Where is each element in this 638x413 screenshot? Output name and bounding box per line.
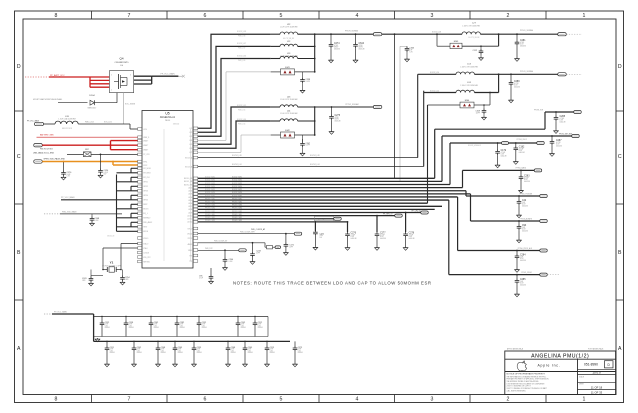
capacitor C343 <box>400 46 414 61</box>
svg-text:PMU_LX4: PMU_LX4 <box>238 123 245 125</box>
node PP1V8_VDDIO terminal <box>520 70 582 76</box>
wire vertical net A <box>394 33 396 178</box>
svg-text:LDO5: LDO5 <box>188 200 192 202</box>
wire L26 to U5 pin <box>78 122 137 129</box>
svg-text:1: 1 <box>583 13 586 19</box>
svg-text:6.3V: 6.3V <box>231 350 234 352</box>
svg-text:SOCV2_SW7: SOCV2_SW7 <box>205 195 215 197</box>
svg-text:4: 4 <box>356 13 359 19</box>
svg-text:0.1UF: 0.1UF <box>229 261 233 263</box>
svg-text:SOCV2_SW1: SOCV2_SW1 <box>232 177 242 179</box>
capacitor C241 <box>82 269 104 286</box>
border grid letters right <box>618 64 622 352</box>
svg-text:BUCK0_FB: BUCK0_FB <box>184 178 192 180</box>
svg-text:PP1V8_SDRAM: PP1V8_SDRAM <box>345 29 359 32</box>
svg-text:C511: C511 <box>110 347 114 349</box>
wire XTALO <box>121 244 138 270</box>
capacitor C238 <box>300 72 310 93</box>
svg-text:PP1V8_S2R: PP1V8_S2R <box>534 109 544 111</box>
svg-text:0402-M: 0402-M <box>380 238 386 240</box>
svg-text:LDO7: LDO7 <box>188 206 192 208</box>
capacitor C512 <box>253 317 264 337</box>
svg-text:D104: D104 <box>89 95 95 97</box>
wire risers U5 to buck inductor rows <box>198 31 271 152</box>
svg-text:TP1: TP1 <box>189 255 192 257</box>
svg-text:PP_VCC_MAIN: PP_VCC_MAIN <box>61 196 75 199</box>
wire L22 output <box>298 33 374 35</box>
svg-text:5: 5 <box>280 397 283 403</box>
svg-text:C472: C472 <box>320 233 325 235</box>
svg-text:PORT ANGELINA-B: PORT ANGELINA-B <box>588 348 604 351</box>
svg-text:6.3V: 6.3V <box>161 350 164 352</box>
svg-text:B: B <box>17 250 21 256</box>
wire SOCV2 long A <box>198 74 418 157</box>
svg-text:PP1V8_VSOC: PP1V8_VSOC <box>517 139 528 141</box>
wire bus U5 SOCV2 group <box>198 177 471 223</box>
wire PP_VCC_MAIN to pins <box>61 196 116 200</box>
svg-text:6.3V: 6.3V <box>241 325 244 327</box>
svg-text:PPGPU_SW2: PPGPU_SW2 <box>205 217 215 219</box>
svg-text:WDOG: WDOG <box>143 209 149 211</box>
svg-text:PPGPU_SW2: PPGPU_SW2 <box>232 217 242 219</box>
diode D104 <box>33 93 117 110</box>
node PP1V8_SDRAM terminal <box>345 29 382 35</box>
svg-text:D: D <box>618 64 622 70</box>
svg-text:22PF: 22PF <box>289 246 293 248</box>
svg-text:REFGND: REFGND <box>143 261 151 263</box>
svg-text:PPCPU_SW5: PPCPU_SW5 <box>205 211 215 213</box>
title block <box>505 348 616 395</box>
svg-text:TP2: TP2 <box>189 261 192 263</box>
svg-text:SOCV2_LX5: SOCV2_LX5 <box>237 105 246 107</box>
svg-text:PP3V0_VIDEO: PP3V0_VIDEO <box>521 272 533 274</box>
capacitor C247 <box>300 135 310 156</box>
wire staircase row C287 <box>442 134 579 182</box>
svg-text:6.3V: 6.3V <box>105 325 108 327</box>
svg-text:0603-M: 0603-M <box>178 352 184 354</box>
wire BATTERY_SNS red <box>37 133 138 137</box>
svg-text:NRST: NRST <box>143 204 147 206</box>
wire red battery thick <box>42 141 137 150</box>
svg-text:C148: C148 <box>95 218 100 220</box>
svg-text:FB6 ROUTING: FB6 ROUTING <box>40 148 53 150</box>
svg-text:LDO6: LDO6 <box>188 203 192 205</box>
svg-text:PPCPU_SW1: PPCPU_SW1 <box>205 198 215 200</box>
svg-text:SOCV2_SW4: SOCV2_SW4 <box>232 186 242 188</box>
svg-text:LX4: LX4 <box>189 140 192 142</box>
svg-text:47UF: 47UF <box>258 324 262 326</box>
svg-text:MOUNT NEAR WIFI/BT ANGELINA A1: MOUNT NEAR WIFI/BT ANGELINA A1 <box>33 98 62 101</box>
svg-text:LDO12: LDO12 <box>187 222 192 224</box>
svg-text:C171: C171 <box>289 244 294 246</box>
inductor L23 <box>271 96 298 107</box>
svg-text:PP_CPU: PP_CPU <box>143 154 150 156</box>
svg-text:PPGPU_SW3: PPGPU_SW3 <box>205 220 215 222</box>
svg-text:6.3V: 6.3V <box>178 350 181 352</box>
svg-text:16V: 16V <box>320 237 323 239</box>
svg-text:5: 5 <box>280 13 283 19</box>
svg-text:SOCV2_SW6: SOCV2_SW6 <box>205 192 215 194</box>
svg-text:2: 2 <box>507 13 510 19</box>
svg-text:SPK1: SPK1 <box>143 161 147 163</box>
capacitor C542 <box>132 341 143 366</box>
svg-text:PP_SOC_IO: PP_SOC_IO <box>316 219 326 221</box>
capacitor C548 <box>156 341 167 366</box>
wire bank row1 rail <box>94 316 268 337</box>
svg-text:6.3V: 6.3V <box>197 350 200 352</box>
capacitor C319 <box>475 104 486 120</box>
svg-text:1.1UH 1.5YR 110MOHM: 1.1UH 1.5YR 110MOHM <box>280 99 298 101</box>
svg-text:6.3V: 6.3V <box>110 350 113 352</box>
svg-text:C: C <box>618 154 622 160</box>
node terminal PPCPU right <box>412 211 429 214</box>
svg-text:6.3V: 6.3V <box>154 325 157 327</box>
svg-text:SPKR_VDD_PALM_SNS: SPKR_VDD_PALM_SNS <box>44 157 66 160</box>
svg-text:SOCV2_L24: SOCV2_L24 <box>310 164 320 166</box>
svg-text:GPIO4: GPIO4 <box>143 195 148 197</box>
svg-text:0603-M: 0603-M <box>197 352 203 354</box>
svg-text:1.1UH 1.5YR 110MOHM: 1.1UH 1.5YR 110MOHM <box>462 26 480 28</box>
svg-text:15PF: 15PF <box>82 280 86 282</box>
svg-text:0603-M: 0603-M <box>202 327 208 329</box>
inductor L13 far <box>418 63 479 74</box>
capacitor C563 <box>173 341 184 366</box>
svg-text:2 NOT TO MODIFIED OR COPY IT: 2 NOT TO MODIFIED OR COPY IT <box>507 386 531 388</box>
svg-text:47UF: 47UF <box>105 324 109 326</box>
svg-text:PP5V0_SDRAM: PP5V0_SDRAM <box>520 29 534 32</box>
svg-text:0402-M: 0402-M <box>520 285 526 287</box>
inductor L22 <box>271 24 298 40</box>
svg-text:SOCV2_SW3: SOCV2_SW3 <box>205 183 215 185</box>
svg-text:7: 7 <box>128 13 131 19</box>
svg-text:SPI_MOSI: SPI_MOSI <box>143 168 151 170</box>
svg-text:0603-M: 0603-M <box>359 49 365 51</box>
svg-text:SOCV2_SW1: SOCV2_SW1 <box>205 177 215 179</box>
capacitor C552 <box>100 317 111 337</box>
capacitor C569 <box>243 341 254 366</box>
svg-text:0603-M: 0603-M <box>154 327 160 329</box>
svg-text:C247: C247 <box>306 143 311 145</box>
svg-text:EM4: EM4 <box>465 100 470 102</box>
svg-text:11 OF 33: 11 OF 33 <box>591 391 603 395</box>
Apple logo <box>517 361 526 371</box>
svg-text:PP1V8_SDRAM: PP1V8_SDRAM <box>520 70 534 73</box>
wire staircase row C283 <box>463 166 542 187</box>
svg-text:GPIO5: GPIO5 <box>143 200 148 202</box>
svg-text:1.1UH 1.5YR 110MOHM: 1.1UH 1.5YR 110MOHM <box>280 113 298 115</box>
node PP_VCC_MAIN terminal left <box>27 119 44 125</box>
svg-text:ELLCTV_SM_MK: ELLCTV_SM_MK <box>283 38 294 40</box>
svg-text:10UF: 10UF <box>67 174 71 176</box>
svg-text:C548: C548 <box>161 347 165 349</box>
svg-text:LX7: LX7 <box>189 152 192 154</box>
svg-text:47UF: 47UF <box>241 324 245 326</box>
svg-text:PP_VCC_MAIN: PP_VCC_MAIN <box>27 119 40 122</box>
svg-text:10.0.0: 10.0.0 <box>592 371 601 375</box>
capacitor C558 <box>124 317 135 337</box>
svg-text:C563: C563 <box>178 347 182 349</box>
svg-text:EM1: EM1 <box>285 67 290 69</box>
svg-text:LDO8: LDO8 <box>188 209 192 211</box>
wire Q4 drain output PP_VCC_MAIN <box>134 72 185 84</box>
svg-text:PPCPU_SW4: PPCPU_SW4 <box>232 208 242 210</box>
node PP1V2 terminal <box>373 105 382 108</box>
svg-text:120PF: 120PF <box>476 112 481 114</box>
wire left pin comb jumpers <box>117 168 138 231</box>
svg-text:C238: C238 <box>306 79 311 81</box>
svg-text:8: 8 <box>55 397 58 403</box>
svg-text:47UF: 47UF <box>270 349 274 351</box>
capacitor C112 <box>473 45 484 60</box>
svg-text:2: 2 <box>507 397 510 403</box>
wire PP1V8 continue right <box>382 33 449 35</box>
svg-text:SPI_MISO: SPI_MISO <box>143 173 151 175</box>
svg-text:PP_VCC_MAIN: PP_VCC_MAIN <box>161 72 176 75</box>
svg-text:1.1UH 1.5YR 110MOHM: 1.1UH 1.5YR 110MOHM <box>280 27 298 29</box>
capacitor C573 <box>293 341 304 366</box>
svg-text:0603-M: 0603-M <box>248 352 254 354</box>
svg-text:PMU05: PMU05 <box>165 120 170 122</box>
svg-text:PP_VCC_MAIN: PP_VCC_MAIN <box>54 310 67 313</box>
capacitor C277 <box>375 215 387 251</box>
svg-text:C319: C319 <box>475 111 480 113</box>
svg-text:PMU_CLK32K_WIFI: PMU_CLK32K_WIFI <box>240 231 255 233</box>
node battery terminal red <box>34 144 43 147</box>
wire bank row2 rail <box>94 340 290 342</box>
wire CLK32K BT row with resistor <box>198 240 275 249</box>
svg-text:6.3V: 6.3V <box>137 350 140 352</box>
svg-text:120PF: 120PF <box>306 145 311 147</box>
svg-text:ANGELINA PMU(1/2): ANGELINA PMU(1/2) <box>531 354 589 360</box>
capacitor C170 <box>61 161 72 180</box>
wire XTALI <box>103 236 138 270</box>
svg-text:SOCV2_SW3: SOCV2_SW3 <box>232 183 242 185</box>
svg-text:C558: C558 <box>129 322 133 324</box>
svg-text:C513: C513 <box>270 347 274 349</box>
capacitor C472 <box>251 221 324 250</box>
capacitor C593 <box>192 341 203 366</box>
svg-text:SOCV2_SW2: SOCV2_SW2 <box>232 180 242 182</box>
svg-text:6.3V: 6.3V <box>202 325 205 327</box>
svg-text:47UF: 47UF <box>129 324 133 326</box>
capacitor C562 <box>149 317 160 337</box>
svg-text:SOCV2_B: SOCV2_B <box>185 166 192 168</box>
inductor L26 <box>44 116 79 130</box>
svg-text:47UF: 47UF <box>231 349 235 351</box>
svg-text:PP1V2_SDRAM: PP1V2_SDRAM <box>345 103 359 106</box>
svg-text:22PF: 22PF <box>256 252 260 254</box>
svg-text:1.1UH 1.5YR 110MOHM: 1.1UH 1.5YR 110MOHM <box>460 66 478 68</box>
svg-text:NOTES: ROUTE THIS TRACE BETWEE: NOTES: ROUTE THIS TRACE BETWEEN LDO AND … <box>233 281 432 286</box>
svg-text:SOCV2_LX7: SOCV2_LX7 <box>237 43 246 45</box>
svg-text:PPGPU_SW1: PPGPU_SW1 <box>205 214 215 216</box>
inductor L14 <box>271 110 298 121</box>
wire SOCV2 long B <box>198 91 424 167</box>
wire red feed to Q4 <box>49 77 109 87</box>
svg-text:C542: C542 <box>137 347 141 349</box>
node PP_BATT_VCC dashed entry <box>25 74 65 77</box>
svg-text:SOCV2_LX8: SOCV2_LX8 <box>237 31 246 33</box>
capacitor C281 <box>515 33 527 61</box>
wire L24 output join <box>474 73 499 92</box>
svg-text:PP_CPU_IO: PP_CPU_IO <box>412 211 422 213</box>
svg-text:LX24: LX24 <box>143 129 147 131</box>
svg-text:1UF: 1UF <box>410 50 413 52</box>
svg-text:7: 7 <box>128 397 131 403</box>
svg-text:OSC32_IN: OSC32_IN <box>107 236 114 238</box>
svg-text:SOCV2_SW2: SOCV2_SW2 <box>205 180 215 182</box>
svg-text:PMU_NTC: PMU_NTC <box>205 248 214 250</box>
svg-text:C112: C112 <box>473 50 477 52</box>
EMI filter EM5 loop <box>436 33 499 48</box>
svg-text:0603-M: 0603-M <box>334 49 340 51</box>
svg-text:47UF: 47UF <box>110 349 114 351</box>
svg-text:C243: C243 <box>256 250 261 252</box>
capacitor C243 <box>250 242 261 264</box>
svg-text:0603-M: 0603-M <box>129 327 135 329</box>
svg-text:ELLCTV_SM_MK: ELLCTV_SM_MK <box>469 37 480 39</box>
svg-text:SOCV2_SW5: SOCV2_SW5 <box>205 189 215 191</box>
svg-text:A: A <box>17 346 21 352</box>
svg-text:SOCV2_L28: SOCV2_L28 <box>310 155 320 157</box>
svg-text:C582: C582 <box>180 322 184 324</box>
U5 left pin boxes <box>138 128 142 263</box>
capacitor C592 <box>197 317 208 337</box>
title block legal text <box>507 373 549 393</box>
svg-text:PPCPU_SW3: PPCPU_SW3 <box>205 205 215 207</box>
title block labels <box>537 361 615 395</box>
svg-text:C592: C592 <box>202 322 206 324</box>
capacitor C179 <box>495 142 507 168</box>
svg-text:SPK2: SPK2 <box>143 165 147 167</box>
wire NTC row <box>198 248 239 250</box>
svg-text:PPCPU_SW5: PPCPU_SW5 <box>232 211 242 213</box>
svg-text:ANGELINA-A1: ANGELINA-A1 <box>160 116 176 119</box>
svg-text:U5: U5 <box>165 112 169 116</box>
svg-text:SOCV2_SW5: SOCV2_SW5 <box>232 189 242 191</box>
svg-text:LDO1: LDO1 <box>188 187 192 189</box>
svg-text:D: D <box>17 64 21 70</box>
svg-text:1 NO RESERVE THIS DOCUMENT OR: 1 NO RESERVE THIS DOCUMENT OR CONFIDENTE <box>507 383 545 385</box>
svg-text:0603-M: 0603-M <box>241 327 247 329</box>
svg-text:LX1: LX1 <box>189 128 192 130</box>
svg-text:1: 1 <box>583 397 586 403</box>
svg-text:C562: C562 <box>154 322 158 324</box>
svg-text:0603-M: 0603-M <box>231 352 237 354</box>
svg-text:3: 3 <box>431 13 434 19</box>
svg-text:0603-M: 0603-M <box>161 352 167 354</box>
capacitor C283 <box>519 170 531 194</box>
svg-text:NR3015T1R1N: NR3015T1R1N <box>62 128 72 130</box>
wire L27 output <box>480 33 557 35</box>
svg-text:NTCO: NTCO <box>188 228 193 230</box>
svg-text:47UF: 47UF <box>202 324 206 326</box>
svg-text:0402-M: 0402-M <box>409 238 415 240</box>
svg-text:PMU_CLK32K_AP: PMU_CLK32K_AP <box>251 228 266 231</box>
svg-text:22PF: 22PF <box>320 235 324 237</box>
svg-text:SOCV2_SW4: SOCV2_SW4 <box>205 186 215 188</box>
svg-text:47UF: 47UF <box>298 349 302 351</box>
svg-text:C343: C343 <box>410 48 415 50</box>
svg-text:6: 6 <box>204 13 207 19</box>
svg-text:LX3: LX3 <box>189 136 192 138</box>
svg-text:C573: C573 <box>298 347 302 349</box>
svg-text:VDD_RTC: VDD_RTC <box>143 257 151 259</box>
node PP5V0_SDRAM terminal <box>520 29 582 36</box>
svg-text:PPCPU_SW1: PPCPU_SW1 <box>232 198 242 200</box>
svg-text:120PF: 120PF <box>306 81 311 83</box>
node oval NTC terminal <box>239 249 247 252</box>
svg-text:6.3V: 6.3V <box>129 325 132 327</box>
wire L13 far output <box>474 73 557 75</box>
svg-text:0.1UF: 0.1UF <box>104 172 108 174</box>
svg-text:LDO11: LDO11 <box>187 219 192 221</box>
border grid letters left <box>17 64 21 352</box>
svg-text:LX6: LX6 <box>189 148 192 150</box>
svg-text:SOC_I5SNS: SOC_I5SNS <box>125 104 136 106</box>
svg-text:6.3V: 6.3V <box>410 51 413 53</box>
svg-text:CSD68822W15: CSD68822W15 <box>115 62 130 64</box>
svg-text:C254: C254 <box>125 277 130 279</box>
capacitor C275 <box>329 106 341 134</box>
wire Q4 source sense <box>124 93 136 124</box>
capacitor C42 <box>517 195 529 218</box>
svg-text:B: B <box>618 250 622 256</box>
svg-text:BUCK1_FB: BUCK1_FB <box>184 181 192 183</box>
transistor Q4 <box>109 57 133 93</box>
svg-text:GPIO1: GPIO1 <box>143 182 148 184</box>
op-amp U5 ANGELINA-A1 main IC body <box>142 111 193 269</box>
svg-text:Y1: Y1 <box>110 260 114 264</box>
svg-text:MODE: MODE <box>143 231 148 233</box>
svg-text:4.7UF: 4.7UF <box>199 277 203 279</box>
capacitor C287 <box>550 135 563 156</box>
svg-text:4: 4 <box>356 397 359 403</box>
svg-text:15PF: 15PF <box>125 279 129 281</box>
svg-text:VDDIO: VDDIO <box>143 238 149 240</box>
svg-text:6.3V: 6.3V <box>298 350 301 352</box>
capacitor C582 <box>175 317 186 337</box>
svg-text:C244: C244 <box>229 259 234 261</box>
svg-text:47UF: 47UF <box>197 349 201 351</box>
svg-text:LDO3: LDO3 <box>188 194 192 196</box>
svg-text:C95: C95 <box>199 275 202 277</box>
svg-text:6.3V: 6.3V <box>180 325 183 327</box>
svg-text:SPI_CLK: SPI_CLK <box>143 177 150 179</box>
wire staircase row C42 <box>466 191 547 198</box>
wire CLK32K WIFI row <box>198 231 294 233</box>
svg-text:IRQ_L: IRQ_L <box>143 213 148 215</box>
svg-text:343S0542: 343S0542 <box>173 123 180 125</box>
svg-text:0402-M: 0402-M <box>520 260 526 262</box>
capacitor C568 <box>226 341 237 366</box>
svg-text:C502: C502 <box>241 322 245 324</box>
svg-text:EM2: EM2 <box>285 130 290 132</box>
ferrite bead FB7 <box>67 149 138 157</box>
svg-text:0603-M: 0603-M <box>298 352 304 354</box>
svg-text:SOCV2_SW6: SOCV2_SW6 <box>232 192 242 194</box>
svg-text:BATTERY_SNS: BATTERY_SNS <box>40 133 54 136</box>
inductor L24 <box>424 82 479 93</box>
svg-text:0402-M: 0402-M <box>522 231 528 233</box>
capacitor C278 <box>403 212 415 251</box>
capacitor C284 <box>515 250 527 273</box>
svg-text:6.3V: 6.3V <box>270 350 273 352</box>
svg-text:A: A <box>618 346 622 352</box>
svg-text:PPGPU_SW3: PPGPU_SW3 <box>232 220 242 222</box>
U5 right pin name labels <box>184 128 193 263</box>
svg-text:051-8990: 051-8990 <box>584 363 598 367</box>
